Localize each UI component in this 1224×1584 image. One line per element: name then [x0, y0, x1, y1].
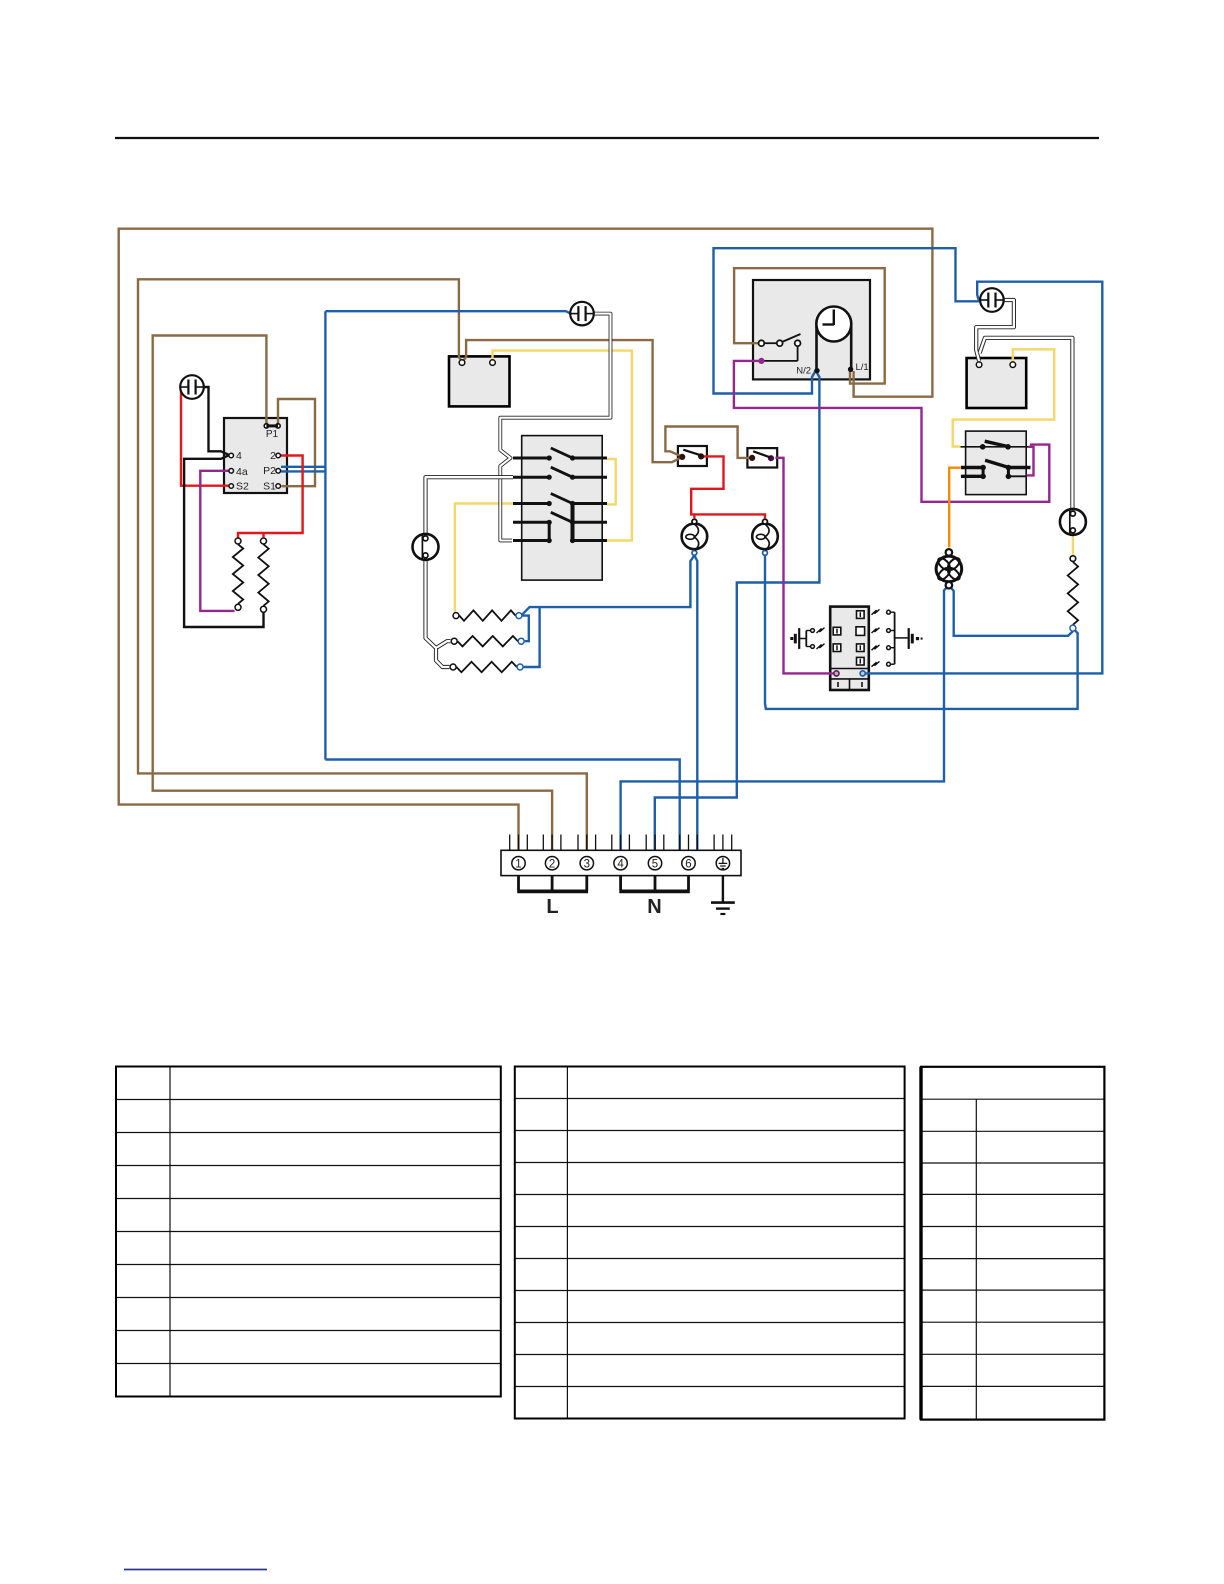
svg-text:3: 3: [584, 858, 590, 870]
svg-text:2: 2: [549, 858, 555, 870]
svg-text:S2: S2: [236, 481, 249, 493]
svg-text:N: N: [647, 896, 661, 918]
svg-text:4a: 4a: [236, 466, 248, 478]
svg-text:L: L: [546, 896, 558, 918]
svg-text:1: 1: [515, 858, 521, 870]
svg-text:4: 4: [236, 450, 242, 462]
svg-text:P2: P2: [263, 465, 276, 477]
svg-text:5: 5: [652, 858, 658, 870]
svg-text:N/2: N/2: [796, 366, 811, 377]
svg-text:S1: S1: [263, 481, 276, 493]
svg-text:6: 6: [685, 858, 691, 870]
svg-text:2: 2: [270, 450, 276, 462]
svg-text:P1: P1: [266, 429, 279, 440]
svg-text:4: 4: [617, 858, 624, 870]
svg-text:L/1: L/1: [856, 362, 869, 373]
